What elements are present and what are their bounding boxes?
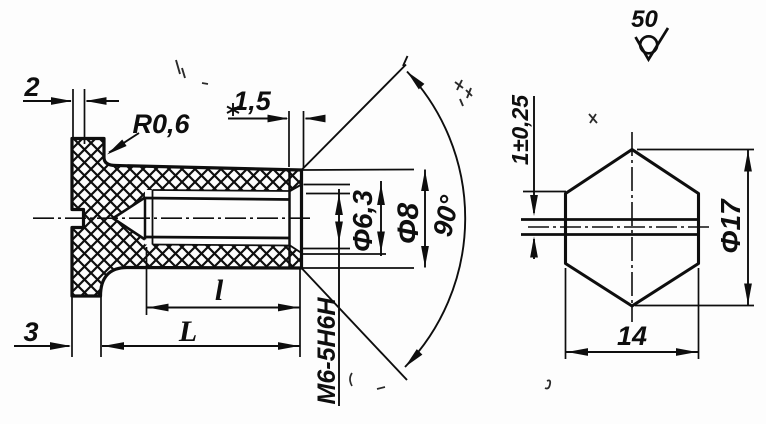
cone line end tick <box>403 56 408 66</box>
dim 1,5 line and arrows <box>228 118 287 120</box>
dim Phi17 <box>635 150 754 306</box>
R0,6 leader <box>109 133 139 153</box>
dim 2 line and arrows <box>23 100 71 102</box>
bore minor lines <box>145 198 290 238</box>
90 deg arc <box>405 72 465 368</box>
dim 1+-0,25 <box>533 96 535 213</box>
svg-text:3: 3 <box>23 317 38 347</box>
extension lines right end <box>303 170 414 269</box>
part outline <box>72 139 302 297</box>
dim M6/Phi6,3 line <box>338 189 340 406</box>
thread end line (1.5 band) <box>288 169 291 269</box>
svg-text:1±0,25: 1±0,25 <box>507 94 533 165</box>
dim OD line <box>424 170 426 268</box>
surface finish symbol <box>636 28 669 60</box>
slot lines <box>521 220 699 235</box>
right face extension down <box>299 268 301 357</box>
svg-text:R0,6: R0,6 <box>132 109 190 139</box>
svg-text:50: 50 <box>631 6 658 33</box>
dim 14 <box>566 268 699 359</box>
dim 1,5 extension lines <box>289 111 304 168</box>
hexagon outline <box>566 150 699 307</box>
noise marks <box>176 60 208 84</box>
axis centerline <box>33 217 312 219</box>
dim 3/L extension lines <box>72 296 101 357</box>
thread major thin lines <box>153 190 291 246</box>
svg-text:14: 14 <box>617 321 647 351</box>
svg-text:1,5: 1,5 <box>233 86 272 116</box>
svg-text:M6-5H6H: M6-5H6H <box>313 297 341 405</box>
bore cone point <box>113 198 145 240</box>
insert body cross-hatched section <box>72 139 302 297</box>
cone line bottom <box>302 268 408 380</box>
svg-text:2: 2 <box>23 72 39 102</box>
svg-text:Φ8: Φ8 <box>392 203 425 245</box>
asterisk mark <box>227 103 239 116</box>
shoulder extension line <box>523 191 566 193</box>
svg-text:l: l <box>215 274 224 307</box>
dim Phi8 line <box>380 181 382 256</box>
dim L line <box>102 345 300 347</box>
dim 3 line <box>14 345 70 347</box>
dim 2 extension lines <box>73 89 85 144</box>
svg-text:L: L <box>178 315 197 348</box>
vertical centerline <box>631 132 633 322</box>
dim l line <box>147 307 301 309</box>
cone line top <box>302 65 407 171</box>
thread start verticals <box>144 198 147 240</box>
countersink chamfer <box>290 185 302 254</box>
horizontal centerline <box>528 226 712 228</box>
dim l extension line left <box>146 247 148 315</box>
svg-text:Φ6,3: Φ6,3 <box>347 190 378 252</box>
svg-text:Φ17: Φ17 <box>715 198 746 254</box>
